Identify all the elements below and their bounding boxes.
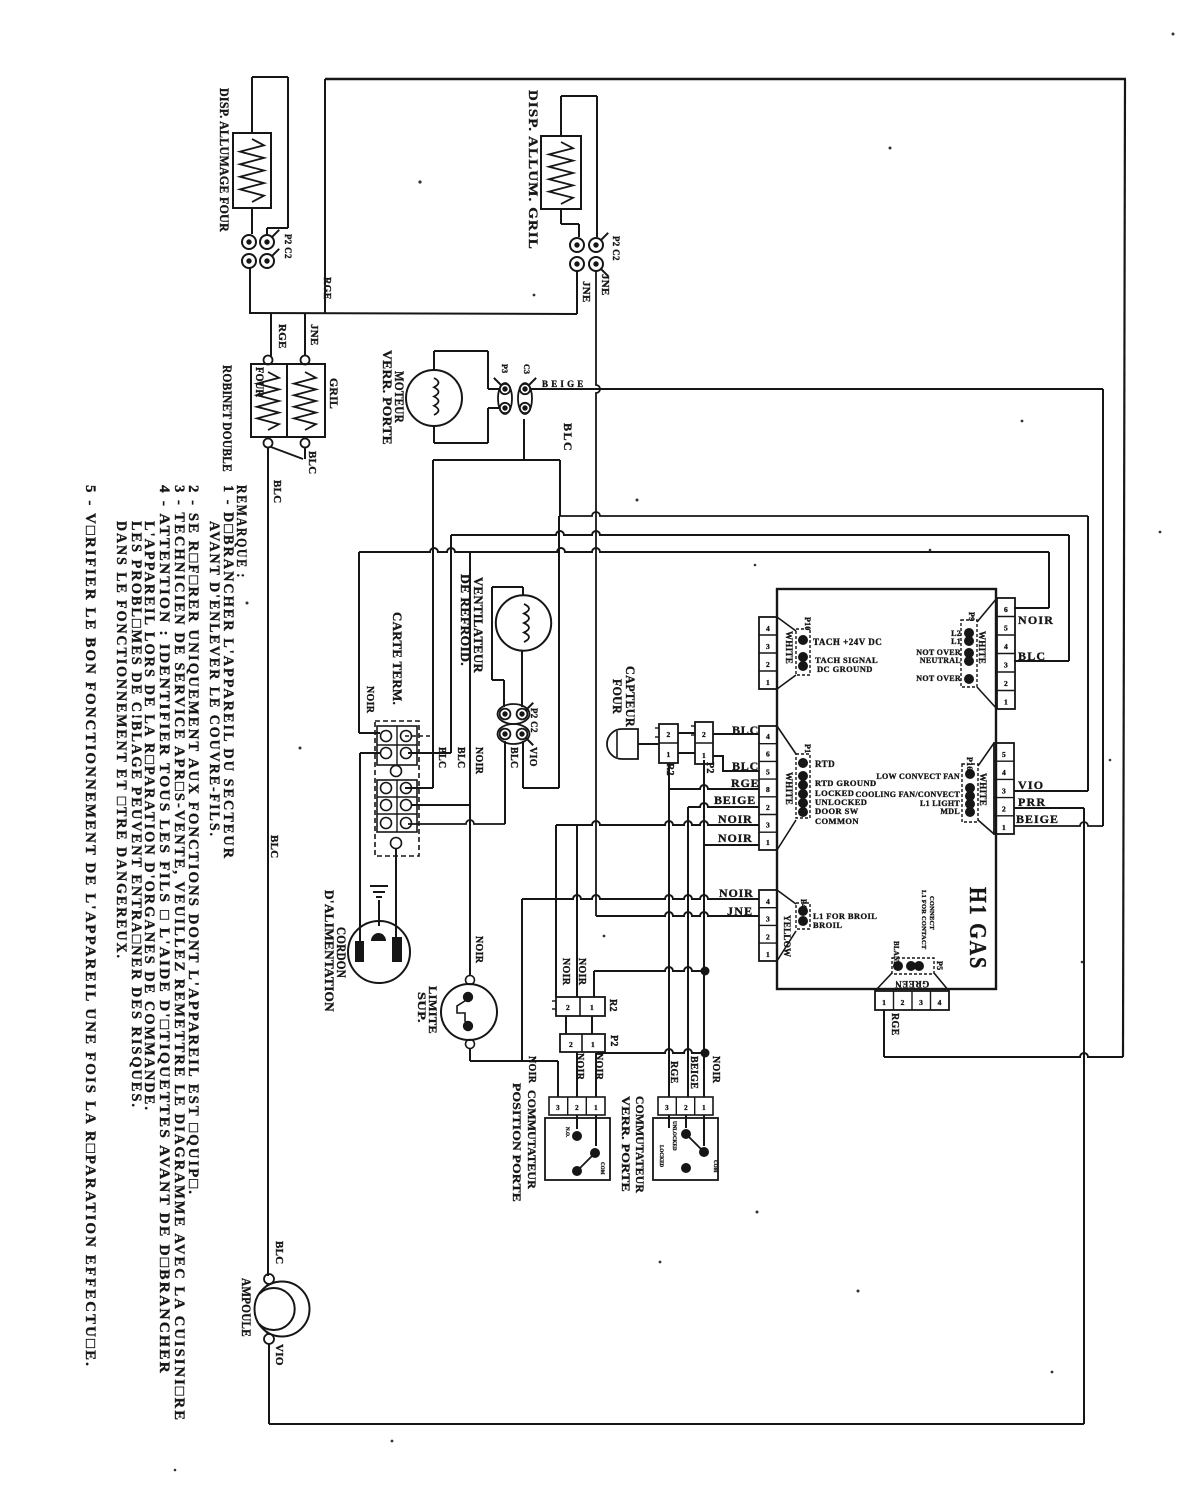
svg-text:3: 3 bbox=[556, 1104, 560, 1112]
svg-text:1: 1 bbox=[1002, 823, 1006, 832]
svg-text:NOIR: NOIR bbox=[473, 747, 484, 775]
svg-text:VERR. PORTE: VERR. PORTE bbox=[619, 1096, 633, 1192]
svg-text:NOIR: NOIR bbox=[718, 831, 753, 845]
svg-text:RGE: RGE bbox=[889, 1013, 900, 1036]
svg-text:NEUTRAL: NEUTRAL bbox=[920, 656, 961, 665]
svg-text:JNE: JNE bbox=[599, 274, 611, 296]
svg-text:VIO: VIO bbox=[527, 747, 538, 767]
svg-text:6: 6 bbox=[766, 750, 770, 759]
svg-text:1: 1 bbox=[591, 1040, 595, 1049]
svg-text:1: 1 bbox=[702, 751, 706, 760]
svg-text:4: 4 bbox=[766, 897, 770, 906]
svg-text:4 - ATTENTION : IDENTIFIER TOU: 4 - ATTENTION : IDENTIFIER TOUS LES FILS… bbox=[156, 485, 172, 1375]
svg-text:4: 4 bbox=[1004, 642, 1008, 651]
svg-text:2: 2 bbox=[575, 1104, 579, 1112]
svg-text:LOW CONVECT FAN: LOW CONVECT FAN bbox=[876, 772, 960, 781]
svg-text:NOIR: NOIR bbox=[710, 1056, 721, 1084]
svg-text:NOIR: NOIR bbox=[719, 886, 754, 900]
svg-text:5 - V□RIFIER LE BON FONCTIONNE: 5 - V□RIFIER LE BON FONCTIONNEMENT DE L'… bbox=[82, 485, 98, 1368]
svg-text:2: 2 bbox=[702, 730, 706, 739]
svg-text:MDL: MDL bbox=[940, 807, 960, 816]
svg-text:2: 2 bbox=[666, 730, 670, 739]
svg-text:NOIR: NOIR bbox=[560, 958, 571, 986]
svg-text:DC GROUND: DC GROUND bbox=[817, 664, 873, 674]
svg-text:R2: R2 bbox=[664, 763, 675, 776]
svg-text:WHITE: WHITE bbox=[784, 772, 794, 805]
svg-text:3: 3 bbox=[665, 1104, 669, 1112]
svg-text:NOIR: NOIR bbox=[1018, 613, 1054, 627]
svg-text:COM: COM bbox=[599, 1162, 604, 1175]
svg-text:SUP.: SUP. bbox=[415, 992, 429, 1023]
svg-text:R2: R2 bbox=[607, 999, 618, 1012]
svg-text:BLC: BLC bbox=[271, 480, 283, 504]
svg-text:NOIR: NOIR bbox=[526, 1056, 537, 1084]
svg-text:RGE: RGE bbox=[668, 1061, 679, 1084]
svg-text:COMMUTATEUR: COMMUTATEUR bbox=[525, 1090, 539, 1189]
svg-text:NOIR: NOIR bbox=[718, 812, 753, 826]
svg-text:BLC: BLC bbox=[561, 423, 575, 452]
svg-text:P3: P3 bbox=[500, 364, 509, 373]
svg-text:P2 C2: P2 C2 bbox=[283, 234, 293, 259]
svg-text:3: 3 bbox=[766, 915, 770, 924]
svg-text:P2: P2 bbox=[704, 762, 715, 774]
svg-text:P2: P2 bbox=[608, 1035, 619, 1047]
svg-text:TACH +24V DC: TACH +24V DC bbox=[813, 637, 882, 647]
svg-text:1: 1 bbox=[1004, 698, 1008, 707]
svg-text:AVANT D'ENLEVER LE COUVRE-FILS: AVANT D'ENLEVER LE COUVRE-FILS. bbox=[206, 521, 222, 838]
svg-text:3: 3 bbox=[1002, 786, 1006, 795]
svg-text:N.O.: N.O. bbox=[564, 1127, 569, 1138]
svg-text:3: 3 bbox=[919, 998, 923, 1007]
svg-text:BEIGE: BEIGE bbox=[688, 1056, 699, 1089]
svg-text:POSITION PORTE: POSITION PORTE bbox=[510, 1083, 524, 1202]
svg-text:BLC: BLC bbox=[455, 747, 466, 768]
svg-text:1: 1 bbox=[666, 750, 670, 759]
svg-text:COMMUTATEUR: COMMUTATEUR bbox=[633, 1096, 647, 1193]
svg-text:JNE: JNE bbox=[308, 324, 320, 346]
svg-text:BLC: BLC bbox=[732, 723, 759, 737]
svg-text:2: 2 bbox=[1002, 805, 1006, 814]
svg-text:P4: P4 bbox=[799, 899, 808, 908]
svg-text:P5: P5 bbox=[935, 961, 944, 970]
svg-text:BEIGE: BEIGE bbox=[714, 793, 756, 807]
svg-text:UNLOCKED: UNLOCKED bbox=[671, 1121, 676, 1151]
svg-text:RGE: RGE bbox=[321, 277, 332, 300]
svg-text:1: 1 bbox=[766, 838, 770, 847]
svg-text:LOCKED: LOCKED bbox=[658, 1145, 663, 1168]
svg-text:NOIR: NOIR bbox=[576, 958, 587, 986]
svg-text:P16: P16 bbox=[965, 757, 974, 771]
svg-text:ROBINET DOUBLE: ROBINET DOUBLE bbox=[220, 365, 235, 472]
svg-text:NOIR: NOIR bbox=[364, 686, 375, 714]
svg-text:RGE: RGE bbox=[276, 324, 288, 349]
svg-text:PRR: PRR bbox=[1018, 795, 1046, 809]
svg-text:3 - TECHNICIEN DE SERVICE APR□: 3 - TECHNICIEN DE SERVICE APR□S-VENTE, V… bbox=[171, 485, 187, 1422]
svg-text:DISP. ALLUM. GRIL: DISP. ALLUM. GRIL bbox=[526, 90, 541, 250]
svg-text:DANS LE FONCTIONNEMENT ET □TRE: DANS LE FONCTIONNEMENT ET □TRE DANGEREUX… bbox=[113, 521, 129, 960]
svg-text:NOIR: NOIR bbox=[574, 1053, 585, 1081]
svg-text:1: 1 bbox=[702, 1104, 706, 1112]
svg-text:2: 2 bbox=[766, 660, 770, 669]
svg-text:4: 4 bbox=[938, 998, 942, 1007]
svg-text:RTD GROUND: RTD GROUND bbox=[815, 778, 877, 788]
svg-text:5: 5 bbox=[1004, 624, 1008, 633]
svg-text:JNE: JNE bbox=[727, 904, 753, 918]
svg-text:D'ALIMENTATION: D'ALIMENTATION bbox=[322, 890, 337, 1012]
svg-text:DISP. ALLUMAGE FOUR: DISP. ALLUMAGE FOUR bbox=[217, 88, 232, 232]
svg-text:BLC: BLC bbox=[1018, 649, 1046, 663]
svg-text:BLC: BLC bbox=[306, 451, 318, 475]
svg-text:4: 4 bbox=[766, 624, 770, 633]
svg-text:BLC: BLC bbox=[508, 747, 519, 768]
svg-text:WHITE: WHITE bbox=[977, 631, 987, 664]
svg-text:4: 4 bbox=[766, 732, 770, 741]
svg-text:DOOR SW: DOOR SW bbox=[815, 806, 859, 816]
svg-text:C3: C3 bbox=[522, 364, 531, 374]
svg-text:LES PROBL□MES DE C!BLAGE PEUVE: LES PROBL□MES DE C!BLAGE PEUVENT ENTRA□N… bbox=[128, 521, 144, 1109]
svg-text:3: 3 bbox=[1004, 661, 1008, 670]
svg-text:CONNECT: CONNECT bbox=[928, 896, 935, 930]
svg-text:8: 8 bbox=[766, 785, 770, 794]
svg-text:NOT OVER: NOT OVER bbox=[916, 674, 961, 683]
svg-text:NOIR: NOIR bbox=[593, 1053, 604, 1081]
svg-text:3: 3 bbox=[766, 821, 770, 830]
svg-text:BLC: BLC bbox=[436, 747, 447, 768]
svg-text:VIO: VIO bbox=[273, 1344, 285, 1366]
svg-text:WHITE: WHITE bbox=[784, 631, 794, 664]
svg-text:L1: L1 bbox=[951, 637, 961, 646]
svg-text:L1 FOR CONTACT: L1 FOR CONTACT bbox=[920, 890, 927, 950]
svg-text:NOIR: NOIR bbox=[473, 936, 484, 964]
svg-text:2: 2 bbox=[684, 1104, 688, 1112]
svg-text:WHITE: WHITE bbox=[978, 773, 988, 806]
svg-text:P2 C2: P2 C2 bbox=[611, 236, 621, 261]
svg-text:COOLING FAN/CONVECT: COOLING FAN/CONVECT bbox=[856, 790, 961, 799]
svg-text:2: 2 bbox=[901, 998, 905, 1007]
svg-text:VIO: VIO bbox=[1018, 778, 1044, 792]
svg-text:BLC: BLC bbox=[268, 835, 280, 859]
svg-text:RGE: RGE bbox=[731, 776, 759, 790]
svg-text:5: 5 bbox=[766, 767, 770, 776]
svg-text:YELLOW: YELLOW bbox=[782, 915, 792, 957]
svg-text:2: 2 bbox=[569, 1040, 573, 1049]
svg-text:FOUR: FOUR bbox=[253, 367, 267, 397]
svg-text:P9: P9 bbox=[967, 612, 976, 621]
svg-text:COM: COM bbox=[712, 1160, 717, 1173]
svg-text:JNE: JNE bbox=[580, 281, 592, 303]
svg-text:1: 1 bbox=[594, 1104, 598, 1112]
svg-text:BLANK: BLANK bbox=[892, 941, 900, 967]
svg-text:1: 1 bbox=[882, 998, 886, 1007]
svg-text:4: 4 bbox=[1002, 768, 1006, 777]
svg-text:DE REFROID.: DE REFROID. bbox=[458, 574, 473, 666]
svg-text:5: 5 bbox=[1002, 750, 1006, 759]
svg-text:P2 C2: P2 C2 bbox=[529, 708, 539, 733]
svg-text:FOUR: FOUR bbox=[610, 679, 625, 714]
svg-text:CARTE TERM.: CARTE TERM. bbox=[390, 612, 405, 705]
svg-text:2: 2 bbox=[766, 932, 770, 941]
svg-text:2: 2 bbox=[766, 803, 770, 812]
svg-text:1: 1 bbox=[766, 678, 770, 687]
svg-text:1: 1 bbox=[766, 950, 770, 959]
svg-text:2: 2 bbox=[566, 1003, 570, 1012]
svg-text:H1 GAS: H1 GAS bbox=[964, 887, 990, 970]
svg-text:2: 2 bbox=[1004, 679, 1008, 688]
svg-text:VERR. PORTE: VERR. PORTE bbox=[380, 350, 395, 445]
svg-text:GREEN: GREEN bbox=[895, 979, 930, 989]
svg-text:GRIL: GRIL bbox=[327, 378, 341, 409]
svg-text:1: 1 bbox=[590, 1003, 594, 1012]
svg-text:P10: P10 bbox=[803, 617, 812, 631]
svg-text:BLC: BLC bbox=[732, 759, 759, 773]
svg-text:BEIGE: BEIGE bbox=[542, 379, 587, 389]
svg-text:P1: P1 bbox=[803, 744, 812, 753]
svg-text:3: 3 bbox=[766, 642, 770, 651]
svg-text:RTD: RTD bbox=[815, 759, 835, 769]
svg-text:COMMON: COMMON bbox=[815, 816, 859, 826]
svg-text:BLC: BLC bbox=[273, 1241, 285, 1265]
svg-text:BROIL: BROIL bbox=[813, 920, 842, 930]
svg-text:BEIGE: BEIGE bbox=[1016, 812, 1059, 826]
svg-text:6: 6 bbox=[1004, 605, 1008, 614]
svg-text:AMPOULE: AMPOULE bbox=[239, 1278, 254, 1337]
